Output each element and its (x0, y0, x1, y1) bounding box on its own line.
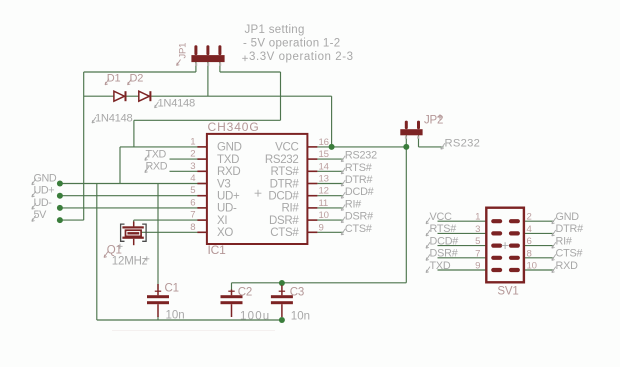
wire JP2 pin1 down (405, 135, 407, 147)
svg-text:1: 1 (190, 136, 195, 147)
svg-text:DSR#: DSR# (269, 215, 299, 227)
svg-text:V3: V3 (217, 178, 230, 190)
svg-text:RS232: RS232 (445, 138, 481, 150)
svg-text:RI#: RI# (345, 198, 361, 210)
svg-text:UD-: UD- (34, 197, 53, 209)
svg-text:5V: 5V (34, 209, 48, 221)
capacitor C2 plates (221, 295, 243, 298)
crystal Q1 bottom pin stub (133, 239, 135, 245)
capacitor C3 top pin (281, 285, 283, 295)
wire SV1 pin8 CTS# (524, 257, 554, 259)
svg-text:CTS#: CTS# (345, 223, 372, 235)
svg-text:2: 2 (527, 212, 532, 223)
svg-text:RXD: RXD (217, 166, 240, 178)
wire SV1 pin1 VCC (438, 220, 487, 222)
svg-text:C3: C3 (290, 286, 304, 298)
svg-text:IC1: IC1 (208, 243, 227, 257)
wire SV1 pin2 GND (524, 220, 554, 222)
svg-text:CTS#: CTS# (556, 248, 583, 260)
JP1 pad marks (195, 63, 197, 66)
JP1 pin 3 post (218, 45, 221, 55)
wire JP2 vertical down to cap rail (405, 147, 407, 283)
svg-text:9: 9 (319, 222, 324, 233)
svg-text:VCC: VCC (275, 142, 298, 154)
JP2 pin 1 post (405, 121, 408, 130)
JP2 pin 2 post (417, 121, 420, 130)
wire RXD to IC pin3 (170, 170, 208, 172)
svg-text:RXD: RXD (556, 260, 579, 272)
crystal Q1 body rect (126, 230, 142, 236)
svg-text:GND: GND (217, 142, 242, 154)
svg-text:4: 4 (527, 224, 533, 235)
node GND label junction (57, 181, 63, 187)
svg-text:Q1: Q1 (107, 244, 122, 256)
wire vertical x=331.6 down to pin16 (331, 96, 333, 147)
wire VCC cap rail y=283 (232, 282, 407, 284)
svg-text:C1: C1 (165, 282, 179, 294)
wire IC pin9 CTS# (317, 231, 343, 233)
IC1 pin stubs left (197, 146, 207, 148)
wire JP1 pin3 top right segment (219, 62, 221, 72)
svg-text:DCD#: DCD# (345, 186, 374, 198)
svg-text:RTS#: RTS# (430, 223, 457, 235)
svg-text:XI: XI (217, 215, 227, 227)
wire horizontal y=120 to left (134, 119, 281, 121)
crystal Q1 top plate (122, 226, 143, 228)
wire SV1 pin3 RTS# (438, 232, 487, 234)
svg-text:DSR#: DSR# (430, 248, 458, 260)
wire XI IC pin7 to crystal (134, 219, 208, 221)
svg-text:D1: D1 (107, 72, 121, 84)
node UD+ label junction (57, 193, 63, 199)
svg-text:10n: 10n (291, 311, 310, 323)
node VCC pin16 junction (329, 144, 335, 150)
svg-text:DCD#: DCD# (430, 235, 459, 247)
svg-text:9: 9 (475, 261, 480, 272)
svg-text:12MHz: 12MHz (112, 256, 148, 268)
svg-text:SV1: SV1 (497, 286, 518, 298)
svg-text:RI#: RI# (282, 203, 300, 215)
svg-text:DTR#: DTR# (270, 178, 300, 190)
svg-text:6: 6 (527, 236, 532, 247)
wire 5V label to border (60, 219, 84, 221)
node C3 bottom junction (279, 317, 285, 323)
wire SV1 pin4 DTR# (524, 232, 554, 234)
faint artifact line (112, 330, 275, 332)
wire SV1 pin7 DSR# (438, 257, 487, 259)
svg-text:DTR#: DTR# (345, 174, 373, 186)
svg-text:DSR#: DSR# (345, 211, 373, 223)
node 5V label junction (57, 217, 63, 223)
svg-text:TXD: TXD (430, 260, 451, 272)
JP2 pad marks (405, 136, 407, 138)
svg-text:10: 10 (527, 261, 537, 272)
wire IC pin15 RS232 (317, 158, 343, 160)
JP1 pin 1 post (194, 45, 197, 55)
svg-text:VCC: VCC (430, 211, 453, 223)
wire C2 corner down (231, 283, 233, 290)
wire C1 branch from V3 net down (157, 184, 159, 290)
op IC1 CH340G box (207, 134, 308, 244)
JP1 pin 2 post (206, 45, 209, 55)
IC1 pin stubs right (307, 146, 317, 148)
crystal Q1 top pin stub (133, 222, 135, 227)
wire SV1 pin5 DCD# (438, 245, 487, 247)
svg-text:13: 13 (319, 174, 329, 185)
wire vertical x=280 down (280, 72, 282, 120)
svg-text:RTS#: RTS# (345, 162, 372, 174)
crystal Q1 body stripe (127, 232, 139, 234)
svg-text:DTR#: DTR# (556, 223, 584, 235)
connector SV1 box (486, 208, 524, 283)
svg-text:CH340G: CH340G (208, 120, 260, 134)
svg-text:XO: XO (217, 227, 233, 239)
wire IC pin14 RTS# (317, 170, 343, 172)
JP1 label arrow (177, 60, 181, 66)
capacitor C3 plates (271, 295, 293, 298)
svg-text:RS232: RS232 (345, 150, 377, 162)
wire D2 cathode to VCC corner (151, 95, 331, 97)
svg-text:11: 11 (319, 198, 329, 209)
svg-text:3: 3 (475, 224, 480, 235)
svg-text:8: 8 (527, 248, 532, 259)
crystal Q1 bottom plate (122, 237, 143, 239)
wire vertical x=134 down to pin1 wire (133, 120, 135, 147)
wire SV1 pin6 RI# (524, 245, 554, 247)
node C3 top junction (279, 280, 285, 286)
node JP2 pin1 junction (403, 144, 409, 150)
wire SV1 pin9 TXD (438, 269, 487, 271)
svg-text:1: 1 (475, 212, 480, 223)
svg-text:5: 5 (475, 236, 480, 247)
svg-text:3.3V operation 2-3: 3.3V operation 2-3 (249, 51, 354, 63)
svg-text:GND: GND (556, 211, 580, 223)
svg-text:7: 7 (475, 248, 480, 259)
svg-text:10n: 10n (166, 309, 185, 321)
jumper JP2 bar (400, 129, 422, 135)
svg-text:UD-: UD- (217, 203, 237, 215)
capacitor C1 plates (147, 295, 169, 298)
svg-text:6: 6 (190, 197, 195, 208)
svg-text:C2: C2 (238, 286, 252, 298)
svg-text:8: 8 (190, 222, 195, 233)
wire JP1 pin2 down to diode net (207, 62, 209, 96)
wire between D1 and D2 (126, 95, 138, 97)
wire XO IC pin8 to crystal (141, 231, 207, 233)
wire JP2 pin2 to RS232 label (419, 146, 444, 148)
JP2 label cross (437, 114, 443, 120)
svg-text:JP1 setting: JP1 setting (245, 24, 305, 36)
wire IC pin13 DTR# (317, 183, 343, 185)
svg-text:100u: 100u (240, 311, 270, 323)
wire diode anode segment (84, 95, 114, 97)
svg-text:UD+: UD+ (217, 191, 240, 203)
svg-text:15: 15 (319, 149, 329, 160)
Q1 origin cross (117, 244, 122, 249)
wire C1 bottom to rail (157, 316, 159, 320)
capacitor C1 bottom pin (157, 304, 159, 317)
svg-text:JP1: JP1 (178, 43, 189, 59)
svg-text:DCD#: DCD# (268, 191, 299, 203)
svg-text:5: 5 (190, 185, 195, 196)
wire SV1 pin10 RXD (524, 269, 554, 271)
wire UD- label to IC pin6 (60, 207, 208, 209)
jumper JP1 bar (191, 55, 224, 62)
svg-text:D2: D2 (130, 72, 144, 84)
diode D2 1N4148 (139, 91, 150, 101)
svg-text:10: 10 (319, 210, 329, 221)
crystal Q1 bracket right (142, 224, 146, 241)
wire JP1 pin1 to left border top (195, 62, 197, 72)
IC1 origin cross (255, 190, 262, 197)
wire GND label to IC pin4 V3 (60, 183, 208, 185)
svg-text:RTS#: RTS# (271, 166, 300, 178)
crystal Q1 bracket left (121, 224, 125, 241)
svg-text:1N4148: 1N4148 (95, 113, 132, 125)
svg-text:RS232: RS232 (265, 154, 299, 166)
wire IC pin10 DSR# (317, 219, 343, 221)
wire GND drop x=96.8 to ground rail (96, 184, 98, 321)
wire IC pin11 RI# (317, 207, 343, 209)
capacitor C2 bottom pin (231, 304, 233, 317)
svg-text:CTS#: CTS# (270, 227, 299, 239)
svg-text:12: 12 (319, 186, 329, 197)
svg-text:- 5V operation 1-2: - 5V operation 1-2 (243, 37, 340, 49)
svg-text:4: 4 (190, 173, 196, 184)
wire left border vertical (5V net) (83, 72, 85, 220)
wire IC pin1 GND (120, 146, 207, 148)
wire VCC pin16 to JP2 (317, 146, 406, 148)
capacitor C3 bottom pin (281, 304, 283, 317)
svg-text:2: 2 (190, 149, 195, 160)
wire UD+ label to IC pin5 (60, 195, 208, 197)
svg-text:1N4148: 1N4148 (158, 97, 195, 109)
wire ground rail (97, 319, 282, 321)
capacitor C1 top pin (157, 284, 159, 295)
wire JP2 pin2 down (418, 135, 420, 147)
SV1 origin cross (502, 242, 509, 249)
svg-text:7: 7 (190, 210, 195, 221)
diode D1 1N4148 (114, 91, 125, 101)
svg-text:UD+: UD+ (34, 185, 55, 197)
SV1 pads (491, 219, 502, 223)
svg-text:14: 14 (319, 161, 330, 172)
svg-text:RI#: RI# (556, 235, 572, 247)
wire IC pin12 DCD# (317, 195, 343, 197)
svg-text:16: 16 (319, 137, 329, 148)
node UD- label junction (57, 205, 63, 211)
wire TXD to IC pin2 (170, 158, 208, 160)
svg-text:3: 3 (190, 161, 195, 172)
capacitor C2 top pin (231, 290, 233, 296)
svg-text:TXD: TXD (217, 154, 239, 166)
wire vertical x=120 pin1 to pin4 wire (119, 147, 121, 184)
svg-text:GND: GND (34, 172, 57, 184)
